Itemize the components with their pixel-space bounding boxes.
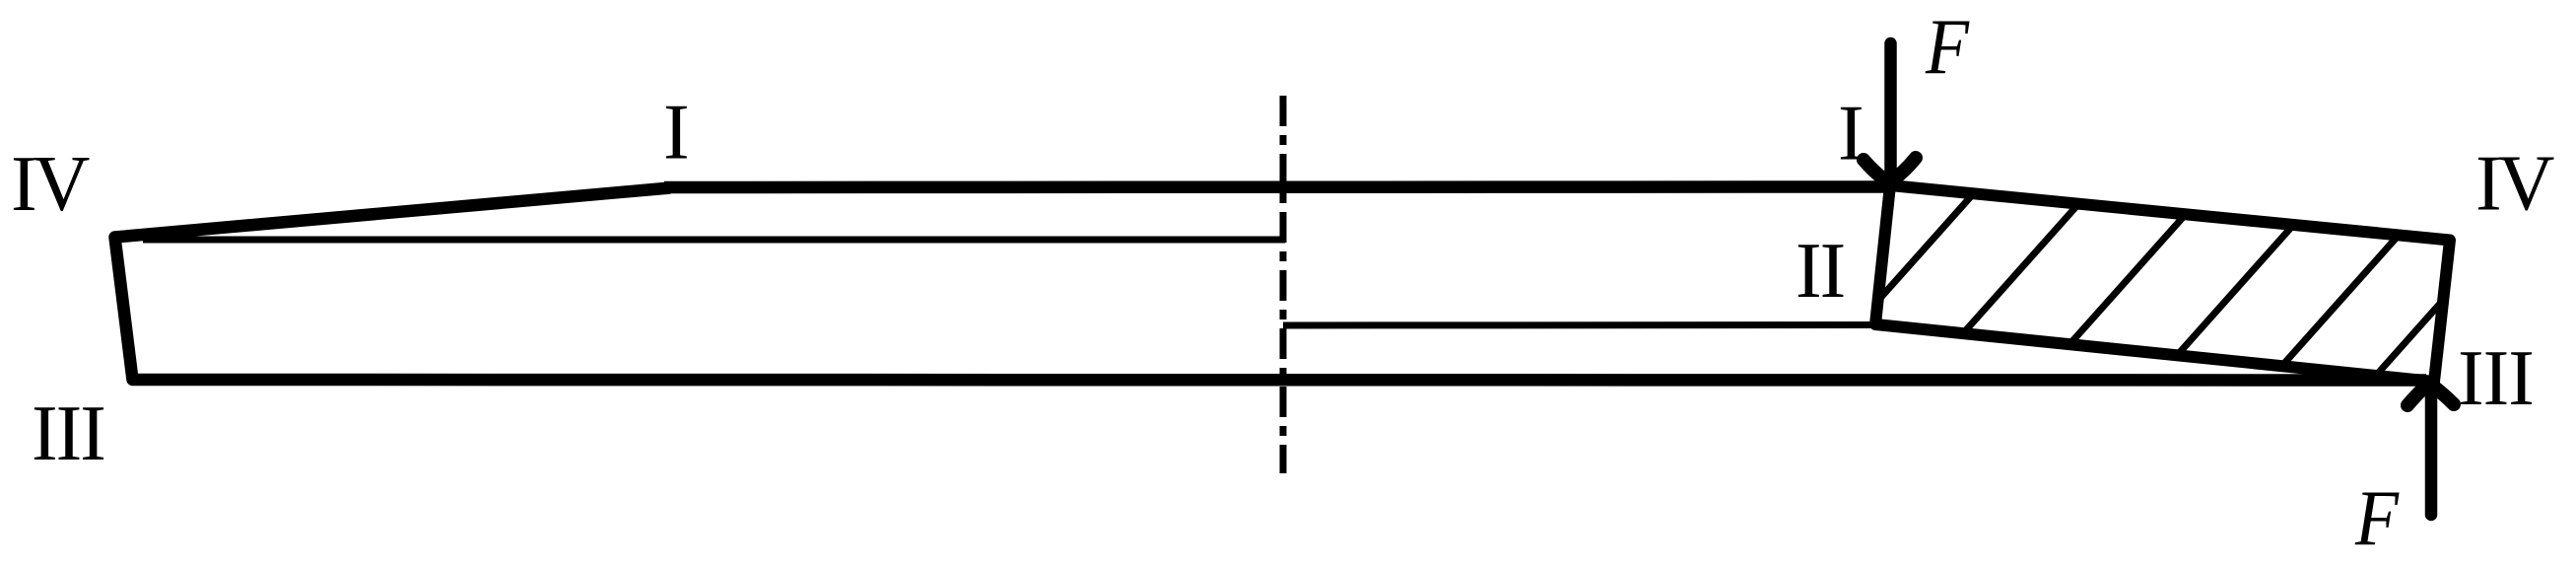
svg-text:F: F xyxy=(2354,475,2400,562)
wire: top horizontal line xyxy=(664,180,1890,193)
svg-text:III: III xyxy=(32,390,104,477)
svg-text:III: III xyxy=(2458,335,2534,422)
node: dash-dot centerline xyxy=(1280,96,1287,473)
wire: hatch line 1 xyxy=(1768,158,2005,424)
svg-text:I: I xyxy=(1838,90,1864,177)
wire: hatch line 4 xyxy=(2116,158,2353,424)
svg-text:IV: IV xyxy=(11,141,90,228)
wire: thin mid edge line left half xyxy=(143,237,1285,244)
wire: hatch line 2 xyxy=(1882,158,2120,424)
svg-text:F: F xyxy=(1925,4,1970,91)
node: hatched end block parallelogram xyxy=(1768,158,2570,424)
wire: thin mid edge line right half xyxy=(1283,321,1873,329)
node: top arrowhead xyxy=(1864,158,1916,182)
node: bottom arrowhead xyxy=(2407,384,2454,406)
node: top force arrow shaft xyxy=(1884,43,1897,179)
node: bottom force arrow shaft xyxy=(2425,385,2438,515)
wire: hatch line 5 xyxy=(2230,158,2468,424)
wire: hatch line 6 xyxy=(2333,158,2570,424)
wire: parallelogram outline xyxy=(1875,185,2450,382)
svg-text:II: II xyxy=(1796,228,1844,315)
svg-text:I: I xyxy=(663,90,690,177)
wire: hatch line 3 xyxy=(1999,158,2236,424)
svg-text:IV: IV xyxy=(2475,141,2554,228)
wire: beam outline (left edge, top slant, top line, bottom line) xyxy=(115,188,2427,381)
